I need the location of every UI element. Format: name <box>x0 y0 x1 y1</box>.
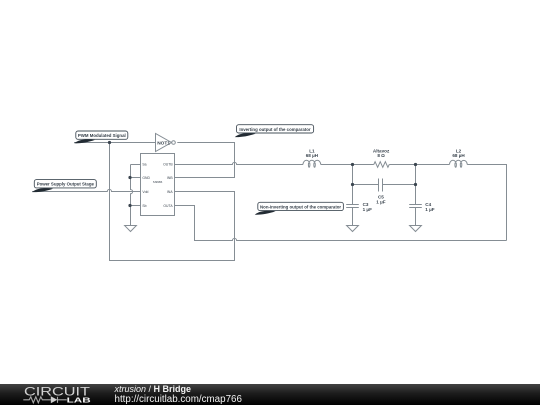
svg-text:OUTB: OUTB <box>163 163 173 167</box>
wire node B to L2 <box>416 164 450 166</box>
svg-text:68 µH: 68 µH <box>452 153 465 158</box>
wire C5 right plate to node B2 <box>383 184 416 186</box>
ground symbol under IC <box>125 226 137 232</box>
wire node A down to C3 <box>352 165 354 205</box>
logo resistor zigzag and leads <box>23 397 66 403</box>
junction dot node A2 (C3/C5) <box>351 183 354 186</box>
capacitor C4 plates <box>409 205 422 208</box>
wire PWM input net (flag to NOT1 input) <box>74 142 155 144</box>
junction dot node B <box>414 163 417 166</box>
wire Vdd from flag to IC (hop over left return vertical) <box>32 189 141 191</box>
svg-text:SI9986: SI9986 <box>153 180 163 184</box>
flag PWM Modulated Signal <box>74 131 128 143</box>
wire GND stub <box>131 177 141 179</box>
inductor L1 coil <box>303 160 321 167</box>
svg-text:Sa: Sa <box>142 163 146 167</box>
junction dot Sb pin on ground bus <box>128 204 131 207</box>
svg-text:68 µH: 68 µH <box>306 153 319 158</box>
logo diode triangle <box>51 396 58 403</box>
junction dot node A <box>351 163 354 166</box>
CircuitLab logo mark <box>0 384 110 405</box>
svg-text:1 µF: 1 µF <box>425 207 434 212</box>
svg-text:OUTA: OUTA <box>163 204 173 208</box>
footer bar <box>0 384 540 405</box>
svg-text:Non-inverting output of the co: Non-inverting output of the comparator <box>260 204 341 209</box>
junction dot GND pin on ground bus <box>128 176 131 179</box>
capacitor C3 plates <box>346 205 359 208</box>
svg-text:INB: INB <box>167 176 173 180</box>
svg-text:Inverting output of the compar: Inverting output of the comparator <box>239 127 310 132</box>
ground symbol under C3 <box>347 226 359 232</box>
svg-text:LAB: LAB <box>67 395 91 404</box>
junction dot PWM/INA return <box>108 141 111 144</box>
credit text lines <box>115 384 242 404</box>
flag Inverting output of the comparator <box>235 125 314 137</box>
wire OUTA down and along bottom (hop over INA vertical) <box>175 206 507 241</box>
wire Sb stub <box>131 205 141 207</box>
inductor L2 coil <box>450 160 468 167</box>
wire node B down to C4 <box>415 165 417 205</box>
svg-text:1 µF: 1 µF <box>363 207 372 212</box>
svg-text:PWM Modulated Signal: PWM Modulated Signal <box>78 133 126 138</box>
junction dot node B2 (C4/C5) <box>414 183 417 186</box>
wire C4 to ground <box>415 208 417 226</box>
wire node A2 to C5 left plate <box>353 184 379 186</box>
svg-text:INA: INA <box>167 190 173 194</box>
NOT1 output bubble <box>172 141 176 145</box>
wire R1 to node B <box>389 164 415 166</box>
svg-text:Vdd: Vdd <box>142 190 148 194</box>
capacitor C5 plates <box>379 179 383 192</box>
wire C3 to ground <box>352 208 354 226</box>
wire ground bus vertical (hops right over Vdd wire) <box>131 165 133 226</box>
wire node A to R1 <box>353 164 374 166</box>
svg-text:8 Ω: 8 Ω <box>377 153 385 158</box>
flag Non-inverting output of the comparator <box>255 202 344 214</box>
op-amp NOT1 inverter triangle <box>156 134 172 152</box>
wire NOT1 output to INB (net with corner at x=234.5) <box>175 143 235 178</box>
svg-text:NOT1: NOT1 <box>157 140 170 146</box>
wire INA right, down, left along bottom, up to PWM junction <box>110 143 235 261</box>
svg-text:1 µF: 1 µF <box>376 199 385 204</box>
wire L1 to node A <box>321 164 353 166</box>
wire OUTB to L1 (hop over NOT1-INB vertical) <box>175 162 304 164</box>
wire Sa stub <box>131 164 141 166</box>
svg-text:Power Supply Output Stage: Power Supply Output Stage <box>37 182 95 187</box>
svg-text:Sb: Sb <box>142 204 146 208</box>
IC U1 SI9986 body <box>141 154 175 216</box>
resistor R1 Altavoz zigzag <box>374 162 389 168</box>
ground symbol under C4 <box>410 226 422 232</box>
flag Power Supply Output Stage <box>32 180 96 193</box>
svg-text:GND: GND <box>142 176 150 180</box>
wire L2 to right edge then down <box>467 165 506 241</box>
